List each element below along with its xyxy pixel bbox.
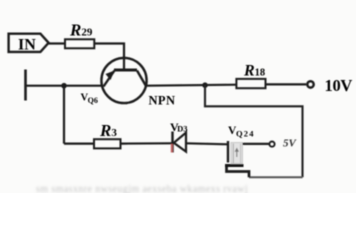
svg-text:5V: 5V — [283, 138, 298, 150]
svg-text:IN: IN — [18, 37, 36, 54]
svg-text:sm smasxnre nwseugjm aexseba w: sm smasxnre nwseugjm aexseba wkamexs rva… — [36, 184, 248, 193]
svg-text:10V: 10V — [325, 76, 353, 95]
svg-text:NPN: NPN — [149, 94, 176, 108]
